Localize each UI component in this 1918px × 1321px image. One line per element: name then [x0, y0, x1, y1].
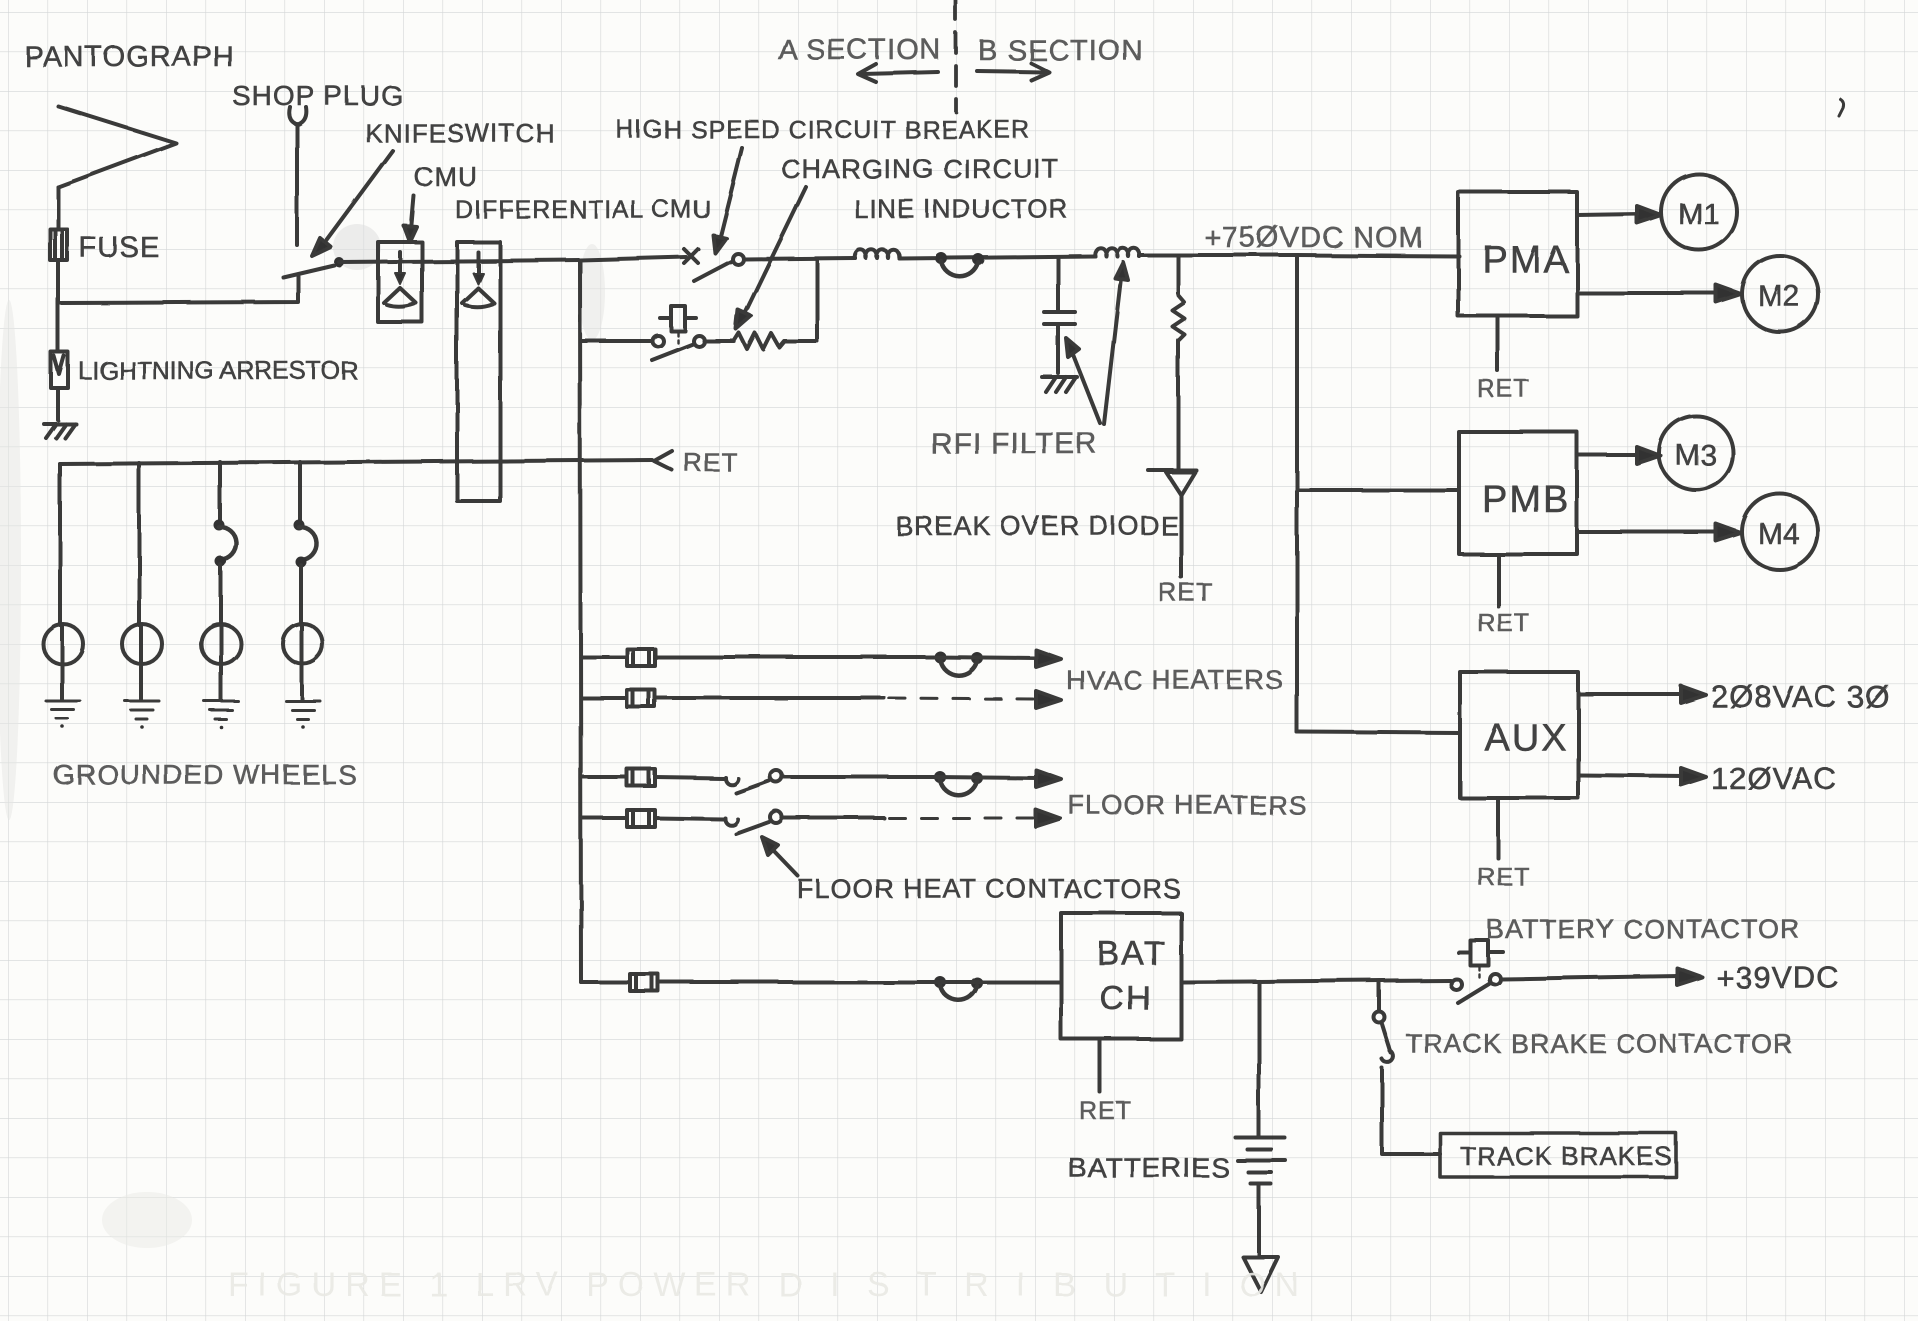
wire inductor to RFI coil	[899, 256, 1095, 258]
wire battery contactor to +39VDC	[1501, 968, 1702, 985]
label arrow (knifeswitch)	[312, 151, 393, 256]
track brake contactor switch	[1374, 981, 1394, 1062]
fuse (HVAC 1)	[627, 649, 655, 666]
svg-text:RFI FILTER: RFI FILTER	[930, 427, 1098, 460]
PMB box	[1459, 432, 1577, 554]
wire to batteries	[1257, 982, 1261, 1137]
current sensor loop (battery charger)	[934, 976, 983, 1000]
grounded wheel drop 1	[58, 464, 62, 625]
wire PMA to M1	[1577, 206, 1661, 223]
wire BAT CH to battery contactor	[1181, 980, 1450, 982]
CMU box	[378, 242, 422, 322]
RET bus arrow	[654, 451, 672, 470]
wheel 2	[122, 624, 162, 664]
shop plug	[289, 107, 306, 245]
label arrow (CMU)	[404, 196, 417, 242]
svg-text:DIFFERENTIAL CMU: DIFFERENTIAL CMU	[455, 196, 712, 224]
motor M3	[1659, 416, 1733, 490]
TRACK BRAKES box	[1440, 1133, 1676, 1177]
wire main bus: knife switch to HSCB	[339, 257, 686, 262]
floor heat contactor 1	[725, 770, 782, 793]
HVAC heater line 2 (dashed feed)	[581, 696, 627, 700]
wire AUX to 208VAC	[1578, 686, 1706, 703]
pantograph	[58, 106, 176, 187]
wire to PMB	[1297, 488, 1459, 492]
svg-text:FLOOR HEAT CONTACTORS: FLOOR HEAT CONTACTORS	[797, 874, 1182, 904]
wire main bus to PMA	[1139, 255, 1459, 256]
svg-text:BREAK OVER DIODE: BREAK OVER DIODE	[895, 511, 1180, 541]
line inductor L1	[855, 250, 899, 258]
svg-text:A SECTION: A SECTION	[778, 34, 942, 66]
charging circuit contact	[581, 336, 705, 361]
fuse (floor 2)	[627, 810, 655, 827]
label arrow (RFI to capacitor)	[1066, 338, 1100, 423]
RFI filter inductor L2	[1095, 248, 1139, 256]
wheel 3	[201, 624, 241, 664]
svg-text:FUSE: FUSE	[79, 232, 160, 264]
motor M1	[1661, 174, 1737, 250]
wire AUX to 120VAC	[1578, 768, 1706, 785]
svg-text:RET: RET	[1079, 1097, 1132, 1125]
wire arrestor to ground	[56, 388, 60, 420]
wire contactor to track brakes	[1382, 1068, 1440, 1154]
resistor R2 (break over branch)	[1172, 256, 1184, 468]
break over diode D1	[1148, 470, 1196, 577]
svg-text:HVAC HEATERS: HVAC HEATERS	[1066, 665, 1284, 695]
ground (wheel 4)	[286, 701, 320, 729]
svg-text:FLOOR HEATERS: FLOOR HEATERS	[1068, 790, 1307, 820]
svg-text:12ØVAC: 12ØVAC	[1711, 761, 1837, 796]
svg-text:CHARGING CIRCUIT: CHARGING CIRCUIT	[781, 154, 1060, 184]
svg-text:2Ø8VAC 3Ø: 2Ø8VAC 3Ø	[1711, 679, 1890, 714]
wire pantograph down-leg to knife switch	[58, 276, 298, 303]
fuse (floor 1)	[627, 769, 655, 786]
ground (wheel 3)	[204, 701, 238, 729]
svg-text:BAT: BAT	[1097, 935, 1167, 973]
label arrow (charging circuit)	[736, 187, 806, 329]
batteries symbol	[1236, 1138, 1286, 1292]
svg-text:CH: CH	[1100, 980, 1153, 1018]
stray mark top right	[1839, 99, 1844, 116]
BAT CH box	[1061, 913, 1181, 1039]
HVAC heater line 1	[581, 655, 627, 659]
floor heater line 1	[581, 775, 627, 779]
grounded wheel drop 4 with coupler	[294, 462, 317, 625]
svg-text:SHOP PLUG: SHOP PLUG	[232, 80, 404, 111]
current sensor loop (floor 1)	[934, 771, 983, 795]
node (knifeswitch hinge dot)	[334, 257, 344, 267]
grounded wheel drop 2	[137, 463, 141, 625]
svg-text:KNIFESWITCH: KNIFESWITCH	[365, 118, 555, 148]
wire PMA RET stub	[1496, 316, 1500, 371]
svg-text:PANTOGRAPH: PANTOGRAPH	[24, 41, 234, 73]
wire branch to PMB and AUX	[1295, 255, 1299, 732]
ground (RFI capacitor)	[1042, 377, 1077, 392]
ground (lightning arrestor)	[44, 424, 76, 438]
wire pantograph to fuse	[56, 187, 60, 229]
wire fuse to lightning arrestor	[56, 260, 60, 352]
current sensor loop (HVAC 1)	[934, 651, 983, 675]
svg-text:B SECTION: B SECTION	[978, 35, 1143, 67]
battery contactor contact	[1451, 974, 1501, 1004]
svg-text:LINE INDUCTOR: LINE INDUCTOR	[854, 194, 1069, 224]
RFI capacitor C1	[1044, 257, 1075, 373]
wire AUX RET stub	[1496, 798, 1500, 858]
fuse (battery charger)	[630, 974, 658, 991]
A/B section divider dashed	[954, 0, 958, 112]
wheel 1	[43, 624, 83, 664]
svg-text:FIGURE 1 LRV POWER D I S T R: FIGURE 1 LRV POWER D I S T R I B U T I O…	[228, 1266, 1308, 1304]
motor M4	[1742, 494, 1818, 570]
ground (wheel 2)	[125, 701, 159, 729]
label arrow (RFI to inductor)	[1104, 262, 1128, 424]
wheel 4	[283, 624, 323, 664]
svg-text:RET: RET	[1477, 375, 1530, 403]
svg-text:PMA: PMA	[1482, 239, 1570, 281]
wire PMB to M3	[1577, 447, 1661, 464]
fuse F1	[50, 229, 67, 260]
svg-text:LIGHTNING ARRESTOR: LIGHTNING ARRESTOR	[78, 357, 358, 385]
wire HSCB to line inductor	[744, 258, 855, 259]
wire PMA to M2	[1577, 285, 1741, 302]
AUX box	[1460, 672, 1578, 798]
A section arrow	[858, 64, 938, 82]
svg-text:+39VDC: +39VDC	[1716, 960, 1840, 995]
svg-text:TRACK BRAKES: TRACK BRAKES	[1460, 1141, 1673, 1171]
grounded wheel drop 3 with coupler	[214, 462, 237, 625]
svg-text:M2: M2	[1758, 280, 1800, 313]
svg-text:TRACK BRAKE CONTACTOR: TRACK BRAKE CONTACTOR	[1406, 1029, 1794, 1059]
battery charger feed line	[581, 980, 630, 984]
svg-text:M1: M1	[1678, 198, 1720, 231]
svg-text:BATTERIES: BATTERIES	[1068, 1152, 1231, 1183]
high speed circuit breaker contact	[684, 249, 744, 281]
motor M2	[1742, 256, 1818, 332]
wire PMB RET stub	[1496, 554, 1500, 606]
wire PMB to M4	[1577, 524, 1741, 541]
PMA box	[1458, 192, 1577, 316]
battery contactor coil	[1458, 940, 1503, 978]
wire charging circuit up to bus	[815, 259, 819, 341]
svg-text:RET: RET	[683, 447, 738, 477]
ground (wheel 1)	[46, 701, 80, 729]
svg-text:BATTERY CONTACTOR: BATTERY CONTACTOR	[1486, 914, 1801, 944]
differential CMU box	[457, 242, 500, 501]
svg-text:M3: M3	[1675, 439, 1717, 472]
svg-text:PMB: PMB	[1482, 479, 1570, 521]
svg-text:AUX: AUX	[1484, 717, 1568, 759]
wire to AUX	[1297, 732, 1460, 733]
svg-text:RET: RET	[1477, 863, 1530, 891]
charging contactor coil	[660, 306, 696, 345]
B section arrow	[977, 63, 1049, 80]
charging resistor R1	[704, 333, 817, 349]
wire charging-circuit feeder vertical	[580, 260, 581, 982]
svg-text:+75ØVDC NOM: +75ØVDC NOM	[1204, 222, 1424, 254]
svg-text:CMU: CMU	[414, 162, 479, 192]
svg-text:RET: RET	[1158, 577, 1213, 607]
scan smudges	[333, 224, 381, 270]
current sensor loop on main bus	[935, 252, 984, 276]
svg-text:M4: M4	[1758, 518, 1800, 551]
floor heater line 2 (dashed feed)	[581, 816, 627, 820]
label arrow (floor heat contactors)	[762, 837, 798, 876]
wire BAT CH RET stub	[1098, 1039, 1102, 1092]
fuse (HVAC 2)	[627, 690, 655, 707]
RET return bus	[60, 460, 652, 464]
svg-text:GROUNDED WHEELS: GROUNDED WHEELS	[53, 759, 357, 790]
svg-text:HIGH SPEED CIRCUIT BREAKER: HIGH SPEED CIRCUIT BREAKER	[616, 116, 1031, 144]
floor heat contactor 2	[725, 811, 782, 834]
svg-text:RET: RET	[1477, 609, 1530, 637]
label arrow (HSCB)	[713, 148, 742, 253]
lightning arrestor	[51, 352, 68, 388]
knifeswitch blade	[283, 265, 334, 277]
